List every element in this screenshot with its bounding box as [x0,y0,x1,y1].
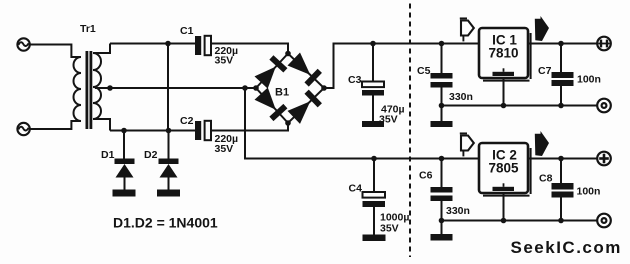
svg-text:C5: C5 [417,65,431,77]
svg-text:330n: 330n [446,205,470,217]
svg-text:35V: 35V [215,55,234,67]
svg-text:Tr1: Tr1 [80,23,96,35]
svg-text:D1: D1 [101,149,115,161]
svg-text:7805: 7805 [488,161,519,176]
svg-text:330n: 330n [449,91,473,103]
svg-text:35V: 35V [380,223,399,235]
svg-text:35V: 35V [215,143,234,155]
svg-text:B1: B1 [275,87,289,99]
svg-text:C3: C3 [348,74,362,86]
svg-text:100n: 100n [577,186,601,198]
svg-text:D1.D2 = 1N4001: D1.D2 = 1N4001 [113,215,218,231]
svg-text:7810: 7810 [488,46,518,61]
svg-text:C1: C1 [180,25,194,37]
svg-text:C7: C7 [538,65,552,77]
svg-text:100n: 100n [577,74,601,86]
svg-text:C2: C2 [180,115,194,127]
svg-text:C4: C4 [349,183,363,195]
svg-text:SeekIC.com: SeekIC.com [511,238,622,257]
svg-text:C8: C8 [539,173,553,185]
svg-text:35V: 35V [379,114,398,126]
svg-text:D2: D2 [144,149,158,161]
svg-text:C6: C6 [419,170,433,182]
